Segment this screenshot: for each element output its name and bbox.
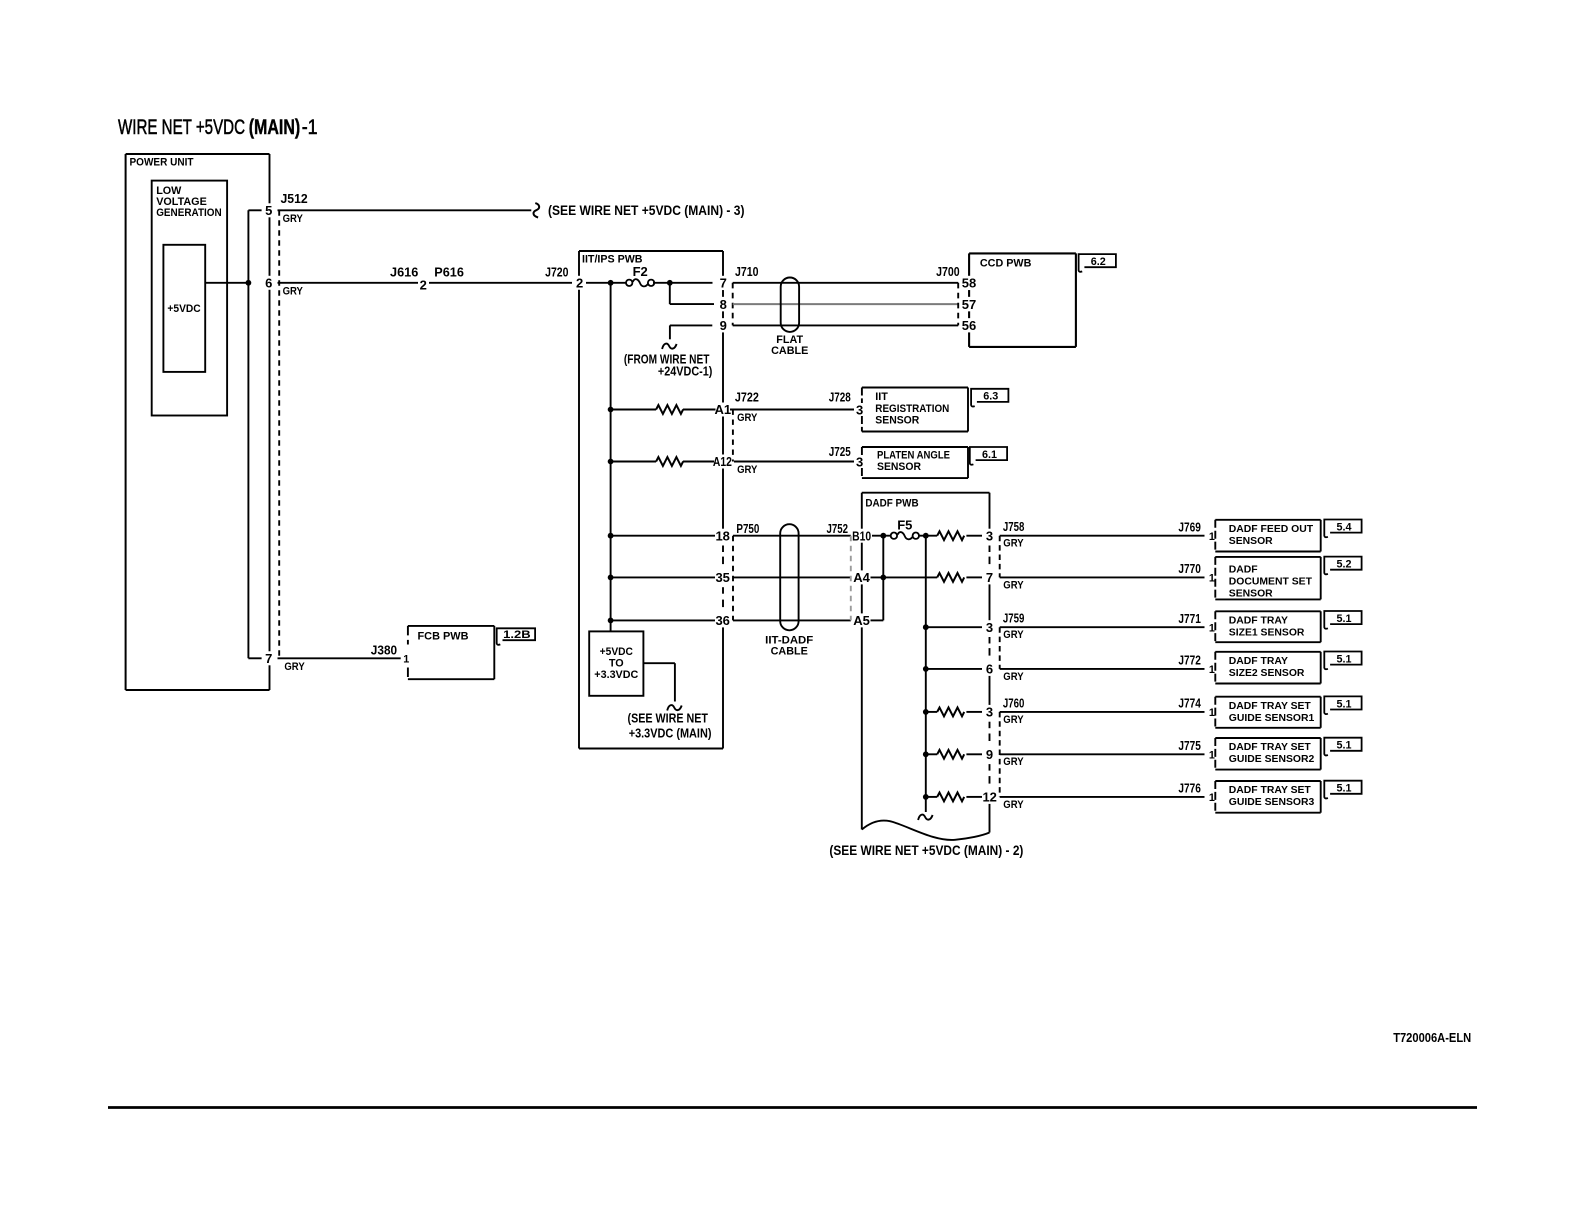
sensor box DADF DOCUMENT SET SENSOR (1215, 556, 1320, 558)
svg-text:DADF PWB: DADF PWB (865, 498, 918, 510)
wire J722-A1 to registration sensor (730, 409, 854, 411)
svg-text:GRY: GRY (284, 661, 305, 673)
off-page squiggle (to 3.3VDC) (667, 705, 682, 710)
wire DADF row3 (926, 626, 982, 628)
svg-text:GUIDE SENSOR3: GUIDE SENSOR3 (1229, 797, 1315, 808)
wire B10 to F5 (872, 535, 891, 537)
svg-text:WIRE NET +5VDC: WIRE NET +5VDC (118, 115, 245, 139)
svg-text:J770: J770 (1178, 561, 1201, 576)
svg-text:J759: J759 (1003, 611, 1025, 626)
IIT/IPS PWB box (579, 250, 723, 252)
svg-text:1: 1 (1209, 749, 1215, 761)
svg-text:J720: J720 (545, 264, 568, 279)
sensor box DADF TRAY SIZE2 SENSOR (1215, 651, 1320, 653)
svg-text:REGISTRATION: REGISTRATION (875, 403, 949, 415)
svg-text:J769: J769 (1178, 519, 1201, 534)
fuse F5 (891, 533, 897, 539)
svg-text:A5: A5 (853, 613, 870, 628)
wire row 36 (611, 619, 715, 621)
svg-text:6: 6 (986, 662, 993, 677)
svg-text:56: 56 (962, 318, 976, 333)
svg-text:+5VDC: +5VDC (600, 646, 633, 658)
wire J770 row (1000, 576, 1205, 578)
svg-text:(SEE WIRE NET +5VDC (MAIN) - 2: (SEE WIRE NET +5VDC (MAIN) - 2) (829, 843, 1023, 858)
svg-text:+3.3VDC (MAIN): +3.3VDC (MAIN) (629, 726, 712, 741)
svg-text:DADF TRAY SET: DADF TRAY SET (1229, 742, 1312, 753)
svg-text:5: 5 (265, 203, 272, 218)
svg-text:5.2: 5.2 (1336, 559, 1351, 571)
low voltage generation box (152, 181, 227, 416)
wire A12 row (611, 461, 657, 463)
svg-text:7: 7 (986, 570, 993, 585)
svg-text:+24VDC-1): +24VDC-1) (658, 364, 713, 379)
svg-text:18: 18 (715, 528, 729, 543)
svg-text:DADF TRAY SET: DADF TRAY SET (1229, 701, 1312, 712)
resistor DADF row6 (937, 750, 964, 759)
svg-text:5.1: 5.1 (1336, 653, 1351, 665)
resistor DADF row7 (937, 793, 964, 802)
wire J769 row (1000, 535, 1205, 537)
svg-text:GRY: GRY (1003, 579, 1024, 591)
svg-text:J380: J380 (371, 643, 397, 658)
svg-text:9: 9 (986, 747, 993, 762)
svg-text:J725: J725 (829, 444, 851, 459)
svg-text:12: 12 (982, 790, 996, 805)
node power bus junction (246, 280, 252, 286)
svg-text:GRY: GRY (1003, 714, 1024, 726)
svg-text:F5: F5 (897, 518, 912, 533)
wire cable row 36-A5 (733, 619, 851, 621)
svg-text:J774: J774 (1178, 696, 1201, 711)
sensor box DADF TRAY SIZE1 SENSOR (1215, 610, 1320, 612)
tag 6.1 (970, 447, 1007, 465)
wire DADF row7 (926, 796, 937, 798)
connector dashed line at J group y712 (999, 712, 1001, 797)
svg-text:J752: J752 (827, 521, 849, 536)
svg-text:J710: J710 (735, 264, 759, 279)
IIT registration sensor box (862, 387, 968, 389)
tag 1.2B (497, 628, 535, 645)
svg-text:J722: J722 (735, 390, 759, 405)
+5VDC source box (163, 245, 205, 372)
power unit box (126, 153, 270, 155)
svg-text:P616: P616 (434, 264, 464, 279)
node bus row3 (923, 624, 929, 630)
wire J775 row (1000, 753, 1205, 755)
svg-text:36: 36 (715, 613, 729, 628)
svg-text:J775: J775 (1178, 738, 1201, 753)
tag 5.4 (DADF FEED OUT SENSOR) (1324, 520, 1361, 538)
resistor DADF row2 (937, 573, 964, 582)
svg-text:J728: J728 (829, 390, 851, 405)
node bus row4 (923, 666, 929, 672)
FCB PWB box (408, 625, 494, 627)
svg-text:A4: A4 (853, 570, 870, 585)
svg-text:GRY: GRY (737, 412, 758, 424)
node bus-A12 junction (608, 459, 614, 465)
wire row 18 (611, 535, 715, 537)
wire pin 9 from 24VDC (670, 324, 712, 326)
svg-text:TO: TO (609, 657, 624, 669)
wire A5 stub (871, 619, 884, 621)
svg-text:(MAIN): (MAIN) (249, 115, 301, 139)
svg-text:POWER UNIT: POWER UNIT (130, 157, 194, 169)
svg-text:DOCUMENT SET: DOCUMENT SET (1229, 577, 1313, 588)
svg-text:P750: P750 (736, 521, 759, 536)
node bus-18 junction (608, 533, 614, 539)
svg-text:CABLE: CABLE (771, 645, 808, 657)
wire DADF row6 (926, 753, 937, 755)
wire converter to off-page (643, 662, 675, 664)
DADF bus continuation squiggle (918, 815, 933, 820)
wire J774 row (1000, 711, 1205, 713)
wire pin2 to F2 (586, 282, 626, 284)
svg-text:F2: F2 (633, 264, 648, 279)
connector P750 dashed line (732, 536, 734, 621)
node bus top junction (608, 280, 614, 286)
wire pin 6 to J616/P616 junction (278, 282, 419, 284)
wire J771 row (1000, 626, 1205, 628)
svg-text:6.3: 6.3 (983, 391, 998, 403)
tag 5.1 (DADF TRAY SIZE2 SENSOR) (1324, 652, 1361, 670)
wire row 35 (611, 576, 715, 578)
node bus row6 (923, 751, 929, 757)
wire power unit pin bracket (247, 210, 249, 658)
svg-text:7: 7 (720, 276, 727, 291)
svg-text:GRY: GRY (1003, 629, 1024, 641)
wire A4 row (871, 576, 938, 578)
svg-text:CCD PWB: CCD PWB (980, 257, 1032, 269)
wire flat cable 9-56 (733, 324, 959, 326)
svg-text:+5VDC: +5VDC (167, 303, 200, 315)
svg-text:CABLE: CABLE (771, 345, 808, 357)
svg-text:5.4: 5.4 (1336, 521, 1351, 533)
svg-text:GUIDE SENSOR2: GUIDE SENSOR2 (1229, 754, 1315, 765)
wire branch to pin 8 (669, 283, 671, 304)
svg-text:(SEE WIRE NET: (SEE WIRE NET (628, 710, 708, 725)
flat cable symbol (781, 278, 799, 332)
wire J776 row (1000, 796, 1205, 798)
svg-text:3: 3 (856, 454, 863, 469)
connector cable dashed line (J512/J616/J380) (278, 210, 280, 658)
svg-text:9: 9 (720, 318, 727, 333)
svg-text:J760: J760 (1003, 695, 1025, 710)
svg-text:1: 1 (1209, 531, 1215, 543)
svg-text:2: 2 (576, 276, 583, 291)
svg-text:3: 3 (986, 528, 993, 543)
sensor box DADF TRAY SET GUIDE SENSOR3 (1215, 780, 1320, 782)
svg-text:J616: J616 (390, 264, 418, 279)
wire DADF row5 (926, 711, 937, 713)
off-page connector squiggle (to MAIN-3) (533, 203, 539, 217)
svg-text:J758: J758 (1003, 519, 1025, 534)
tag 6.2 (1079, 254, 1116, 272)
svg-text:6: 6 (265, 276, 272, 291)
resistor DADF row1 (937, 531, 964, 540)
bottom rule (108, 1106, 1477, 1109)
wire F2 to pin 7 (653, 282, 713, 284)
svg-text:2: 2 (420, 277, 427, 292)
svg-text:J700: J700 (936, 264, 960, 279)
svg-text:SIZE1 SENSOR: SIZE1 SENSOR (1229, 627, 1305, 638)
connector dashed line at J group y536 (999, 536, 1001, 578)
wire F5 to pin 3 (918, 535, 937, 537)
svg-text:GRY: GRY (283, 213, 304, 225)
node F2 output junction (667, 280, 673, 286)
svg-text:(SEE WIRE NET +5VDC (MAIN) - 3: (SEE WIRE NET +5VDC (MAIN) - 3) (548, 203, 745, 218)
svg-text:3: 3 (986, 705, 993, 720)
wire A1 row (611, 409, 657, 411)
tag 5.1 (DADF TRAY SIZE1 SENSOR) (1324, 611, 1361, 629)
svg-text:1: 1 (1209, 622, 1215, 634)
svg-text:1.2B: 1.2B (503, 629, 531, 641)
connector J710 dashed line (732, 283, 734, 326)
tag 6.3 (971, 389, 1008, 407)
DADF PWB box (862, 492, 990, 494)
svg-text:DADF FEED OUT: DADF FEED OUT (1229, 524, 1314, 535)
wire pin7 to FCB J380 (278, 657, 401, 659)
svg-text:SENSOR: SENSOR (1229, 588, 1273, 599)
svg-text:GRY: GRY (1003, 538, 1024, 550)
svg-text:GENERATION: GENERATION (156, 207, 222, 219)
connector J752 dashed line (gray) (850, 536, 852, 621)
node A4 junction (880, 575, 886, 581)
resistor A12 row (656, 457, 683, 466)
connector J700 dashed line (957, 283, 959, 326)
sensor box DADF FEED OUT SENSOR (1215, 519, 1320, 521)
svg-text:58: 58 (962, 276, 976, 291)
IIT-DADF cable symbol (780, 524, 798, 630)
connector J722 dashed line (732, 410, 734, 462)
wire J722-A12 to platen sensor (734, 461, 854, 463)
svg-text:SENSOR: SENSOR (875, 415, 919, 427)
wire J772 row (1000, 668, 1205, 670)
resistor DADF row5 (937, 708, 964, 717)
wire DADF row4 (926, 668, 982, 670)
svg-text:IIT: IIT (875, 391, 888, 403)
svg-text:DADF TRAY: DADF TRAY (1229, 616, 1288, 627)
svg-text:3: 3 (856, 402, 863, 417)
svg-text:6.1: 6.1 (982, 449, 997, 461)
connector dashed line at J group y627 (999, 627, 1001, 669)
svg-text:7: 7 (265, 651, 272, 666)
svg-text:1: 1 (1209, 573, 1215, 585)
svg-text:GRY: GRY (1003, 799, 1024, 811)
svg-text:SENSOR: SENSOR (877, 461, 921, 473)
wire flat cable 7-58 (733, 282, 959, 284)
wire DADF bus (925, 536, 927, 812)
svg-text:1: 1 (403, 653, 409, 665)
tag 5.1 (DADF TRAY SET GUIDE SENSOR2) (1324, 738, 1361, 756)
tag 5.1 (DADF TRAY SET GUIDE SENSOR3) (1324, 781, 1361, 799)
tag 5.1 (DADF TRAY SET GUIDE SENSOR1) (1324, 696, 1361, 714)
node bus-35 junction (608, 575, 614, 581)
svg-text:PLATEN ANGLE: PLATEN ANGLE (877, 450, 950, 462)
svg-text:SIZE2 SENSOR: SIZE2 SENSOR (1229, 668, 1305, 679)
svg-text:GUIDE SENSOR1: GUIDE SENSOR1 (1229, 713, 1315, 724)
off-page squiggle (from 24VDC-1) (662, 344, 677, 349)
svg-text:1: 1 (1209, 664, 1215, 676)
node bus row5 (923, 709, 929, 715)
svg-text:A12: A12 (713, 454, 732, 469)
svg-text:GRY: GRY (1003, 671, 1024, 683)
svg-text:GRY: GRY (737, 464, 758, 476)
wire cable row 18-B10 (733, 535, 851, 537)
svg-text:T720006A-ELN: T720006A-ELN (1393, 1030, 1471, 1045)
resistor A1 row (656, 405, 683, 414)
svg-text:GRY: GRY (1003, 756, 1024, 768)
svg-text:FCB PWB: FCB PWB (418, 630, 469, 642)
CCD PWB box (969, 252, 1076, 254)
svg-text:DADF TRAY: DADF TRAY (1229, 656, 1288, 667)
svg-text:DADF: DADF (1229, 565, 1258, 576)
sensor box DADF TRAY SET GUIDE SENSOR1 (1215, 696, 1320, 698)
svg-text:J776: J776 (1178, 781, 1201, 796)
node B10 junction (880, 533, 886, 539)
svg-text:GRY: GRY (283, 286, 304, 298)
+5VDC to +3.3VDC converter box (589, 631, 643, 695)
svg-text:5.1: 5.1 (1336, 613, 1351, 625)
wire flat cable 8-57 (gray) (733, 303, 959, 305)
svg-text:57: 57 (962, 297, 976, 312)
svg-text:+3.3VDC: +3.3VDC (594, 669, 638, 681)
platen angle sensor box (862, 446, 968, 448)
node F5 output junction (923, 533, 929, 539)
svg-text:5.1: 5.1 (1336, 783, 1351, 795)
svg-text:J772: J772 (1178, 653, 1201, 668)
svg-text:1: 1 (1209, 792, 1215, 804)
svg-text:3: 3 (986, 620, 993, 635)
svg-text:6.2: 6.2 (1091, 256, 1106, 268)
node bus row7 (923, 794, 929, 800)
svg-text:B10: B10 (852, 528, 871, 543)
svg-text:1: 1 (1209, 707, 1215, 719)
node bus-36 junction (608, 618, 614, 624)
svg-text:J771: J771 (1178, 611, 1201, 626)
svg-text:-1: -1 (302, 115, 318, 139)
wire +5VDC output to bus (205, 282, 248, 284)
node bus-A1 junction (608, 407, 614, 413)
wire cable row 35-A4 (733, 576, 851, 578)
svg-text:DADF TRAY SET: DADF TRAY SET (1229, 785, 1312, 796)
wire IIT internal bus (610, 283, 612, 632)
svg-text:A1: A1 (714, 402, 731, 417)
fuse F2 (626, 280, 632, 286)
wire J512 pin 5 to off-page (278, 209, 532, 211)
sensor box DADF TRAY SET GUIDE SENSOR2 (1215, 737, 1320, 739)
wire A4-B10 vertical link (882, 536, 884, 621)
svg-text:35: 35 (715, 570, 729, 585)
svg-text:J512: J512 (281, 191, 308, 206)
svg-text:5.1: 5.1 (1336, 740, 1351, 752)
svg-text:5.1: 5.1 (1336, 698, 1351, 710)
svg-text:SENSOR: SENSOR (1229, 536, 1273, 547)
tag 5.2 (DADF DOCUMENT SET SENSOR) (1324, 557, 1361, 575)
svg-text:8: 8 (720, 297, 727, 312)
